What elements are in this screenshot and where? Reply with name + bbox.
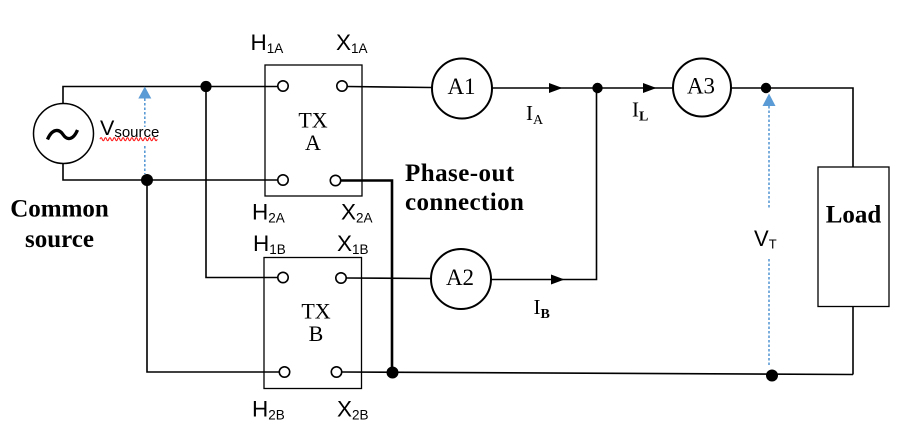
label Vsource: [100, 116, 159, 141]
svg-text:TX: TX: [298, 108, 327, 133]
transformer TX A: [265, 65, 362, 196]
load box: [818, 167, 889, 307]
current arrow IB: [551, 275, 565, 285]
node junction VT bottom: [766, 370, 778, 382]
ammeter A2: [431, 249, 491, 309]
pin X2B terminal: [331, 367, 341, 377]
svg-text:B: B: [309, 321, 324, 346]
transformer TX B: [264, 258, 362, 389]
svg-text:Phase-out: Phase-out: [405, 160, 515, 187]
pin H1A terminal: [278, 81, 288, 91]
label Phase-out connection: [405, 160, 524, 216]
wire load bottom to bus: [852, 307, 854, 375]
wire junction to H2B: [147, 180, 279, 372]
voltage arrow VT: [763, 94, 776, 366]
wire junction to H1B: [206, 87, 278, 278]
ammeter A1: [432, 59, 492, 119]
wire source top to H1A: [63, 87, 278, 105]
wire bottom bus X2B to load leg: [342, 372, 853, 375]
svg-text:A: A: [305, 130, 321, 155]
current arrow IA: [549, 83, 563, 93]
pin X1B terminal: [336, 273, 346, 283]
label Common source: [10, 196, 109, 254]
wire X1A to ammeter A1: [347, 87, 431, 88]
svg-text:connection: connection: [405, 189, 524, 216]
pin H2B terminal: [279, 367, 289, 377]
node junction top left: [200, 81, 211, 92]
svg-text:Load: Load: [826, 202, 882, 229]
wire node to ammeter A3: [597, 87, 673, 89]
wire A1 to node IL: [493, 87, 598, 89]
wire phase-out connection X2A down to bus: [341, 181, 392, 373]
wire X1B to ammeter A2: [346, 277, 431, 280]
pin X1A terminal: [337, 81, 347, 91]
svg-text:A3: A3: [687, 74, 715, 99]
node junction VT top: [761, 83, 771, 93]
wire source bottom to H2A: [63, 164, 278, 180]
svg-text:TX: TX: [301, 299, 330, 324]
pin X2A terminal: [330, 175, 340, 185]
voltage arrow Vsource: [138, 87, 151, 175]
ammeter A3: [673, 59, 731, 117]
pin H2A terminal: [278, 175, 288, 185]
node junction phase-out on bus: [387, 367, 399, 379]
node junction IL: [592, 83, 602, 93]
wire A3 to load top: [732, 88, 854, 167]
node junction bottom left: [141, 174, 153, 186]
svg-text:source: source: [25, 226, 94, 253]
svg-text:A1: A1: [447, 74, 475, 99]
svg-text:Common: Common: [10, 196, 109, 223]
pin H1B terminal: [278, 272, 288, 282]
svg-text:A2: A2: [446, 265, 474, 290]
current arrow IL: [643, 83, 657, 93]
wire A2 up to node IL: [491, 88, 597, 280]
AC source: [34, 104, 94, 164]
